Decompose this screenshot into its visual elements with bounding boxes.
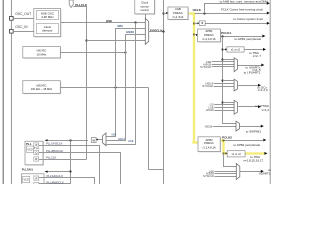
svg-text:SYSCLK: SYSCLK (200, 65, 211, 69)
node PCLK2 branch (222, 139, 224, 141)
wire HSI16 stub (212, 64, 234, 66)
mux LPTIM (234, 100, 237, 114)
svg-text:HSI16: HSI16 (118, 137, 126, 141)
clock source control box (136, 0, 156, 15)
VCO box PLLSAI1 (23, 176, 30, 182)
node HCLK to /8 (193, 22, 195, 24)
arrowhead APB1 peripherals (262, 35, 265, 38)
wire HSI16 stub USART1 (215, 173, 237, 175)
arrowhead FCLK (267, 12, 270, 15)
AHB PRESC box (168, 7, 188, 19)
arrowhead into /M (96, 138, 98, 140)
PLLSAI1 box (22, 174, 45, 188)
svg-text:to SWPMI1: to SWPMI1 (246, 129, 262, 133)
node HSE branch (134, 21, 136, 23)
wire LSE stub (212, 61, 234, 63)
arrowhead into PLLSAI1 (45, 171, 48, 173)
svg-text:USART1: USART1 (259, 172, 271, 176)
yellow highlight: x1orx2 out to TIMx arrow (245, 152, 265, 154)
svg-text:/1,2,4,8,16: /1,2,4,8,16 (202, 145, 216, 149)
svg-text:to Cortex system timer: to Cortex system timer (233, 17, 263, 21)
wire stub to /8 (194, 23, 198, 25)
svg-text:HCLK: HCLK (193, 8, 202, 12)
wire stub to USART mux (223, 59, 234, 61)
yellow highlight: vertical HCLK to APB2 (193, 12, 195, 142)
svg-text:PCLK1: PCLK1 (221, 31, 231, 35)
MSI RC box (23, 81, 61, 94)
divider /8 box (199, 21, 205, 26)
wire HSE to sysclk mux (61, 22, 146, 24)
wire HSE riser down to PLL mux (107, 23, 136, 145)
node HSI16 riser (124, 51, 126, 53)
mux USARTx (234, 58, 237, 72)
arrowhead into x1orx2 APB2 (226, 152, 228, 154)
svg-text:PLL48M2CLK: PLL48M2CLK (47, 181, 65, 185)
node PLLSAI1 input branch (69, 170, 71, 172)
svg-text:PLLSAI3CLK: PLLSAI3CLK (46, 142, 63, 146)
wire HSI16 stub I2C (214, 83, 234, 85)
wire SYSCLK stub USART1 (215, 176, 237, 178)
arrowhead SWPMI (261, 125, 264, 128)
wire OSC_OUT to HSE OSC (13, 18, 34, 20)
arrowhead USART1 (261, 170, 264, 173)
wire MSI riser up to mux (116, 29, 146, 88)
yellow highlight: vertical PCLK2 down to x1orx2 (222, 140, 224, 155)
mux PLL source (reversed) (103, 133, 106, 146)
svg-text:HSI16: HSI16 (206, 108, 214, 112)
wire riser to AHB bus arrow (205, 4, 268, 14)
wire LSE stub USART1 (215, 171, 237, 173)
divider /P PLLSAI1 (34, 176, 39, 180)
svg-text:SYSCLK: SYSCLK (203, 174, 214, 178)
svg-text:HSI16: HSI16 (126, 30, 134, 34)
yellow highlight: HCLK wire segment (188, 12, 195, 14)
wire PCLK1 vertical (223, 37, 237, 124)
wire MSI riser down to PLL mux (107, 88, 116, 137)
wire HSI16 stub SWPMI (213, 126, 236, 128)
node PCLK1 to I2C mux (221, 79, 223, 81)
svg-text:control: control (140, 8, 149, 12)
svg-text:x1 or x2: x1 or x2 (232, 152, 242, 156)
wire PLL mux out to /M (96, 139, 103, 141)
node SYSCLK to AHB presc (162, 12, 164, 14)
node PCLK1 to LPTIM mux (221, 101, 223, 103)
wire I2C out (237, 85, 258, 87)
yellow highlight: PCLK2 out of APB2 PRESC (220, 139, 224, 141)
wire PLL48M1CLK (39, 153, 121, 185)
svg-text:PLL48M1CLK: PLL48M1CLK (46, 149, 64, 153)
svg-text:to APB1 peripherals: to APB1 peripherals (234, 37, 261, 41)
yellow highlight: elbow into APB2 PRESC (192, 141, 198, 143)
svg-text:MSI: MSI (118, 24, 123, 28)
wire stub to APB1 (194, 34, 196, 36)
wire LPTIM out (237, 106, 258, 108)
svg-text:/P: /P (35, 177, 38, 180)
svg-text:x=1,8,15,16,17: x=1,8,15,16,17 (243, 158, 263, 162)
wire SYSCLK out (149, 31, 164, 33)
svg-text:/M: /M (92, 138, 95, 142)
wire SYSCLK vertical distribution (163, 0, 165, 184)
svg-text:PLLSAI1: PLLSAI1 (22, 168, 34, 172)
arrowhead TIMx APB2 (264, 152, 267, 155)
HSE OSC outer box shadow (35, 9, 62, 37)
node PCLK1 branch (221, 35, 223, 37)
svg-text:HSE: HSE (128, 139, 134, 143)
wire HSI16 riser up to mux (126, 35, 146, 53)
svg-text:PLLCLK: PLLCLK (46, 156, 57, 160)
wire LSE stub LPTIM (214, 107, 234, 109)
node HCLK to APB1 (193, 33, 195, 35)
pin OSC_OUT square (10, 17, 14, 21)
wire PLLCLK into sysclk mux (87, 40, 146, 42)
svg-text:MSI: MSI (112, 133, 117, 137)
PLL box (25, 141, 43, 165)
divider /Q PLL (34, 150, 39, 154)
svg-text:F vco: F vco (34, 148, 40, 150)
arrowhead into APB1 PRESC (196, 34, 198, 36)
arrowhead into PLL (45, 139, 48, 141)
svg-text:x=1,2,3: x=1,2,3 (258, 88, 268, 92)
svg-text:to LPUART1: to LPUART1 (244, 71, 261, 75)
svg-text:x=1,2: x=1,2 (262, 108, 270, 112)
svg-text:to AHB bus, core, memory and D: to AHB bus, core, memory and DMA (220, 0, 268, 4)
node HCLK branch up (203, 12, 205, 14)
node PCLK2 to x1orx2 (222, 152, 224, 154)
svg-text:16 MHz: 16 MHz (37, 52, 48, 56)
wire PLLSAI1CLK (39, 178, 95, 185)
svg-text:/1,2..512: /1,2..512 (172, 15, 183, 19)
wire USART1 out (240, 171, 262, 173)
svg-text:PCLK2: PCLK2 (222, 136, 232, 140)
wire HSI16 stub LPTIM (214, 110, 234, 112)
mux SYSCLK (145, 18, 148, 44)
wire stub to x1orx2 (223, 49, 226, 51)
wire PCLK2 to APB2 peripherals (224, 140, 263, 142)
wire USARTx out (237, 65, 262, 67)
wire MSI out (60, 87, 148, 89)
svg-text:MSI RC: MSI RC (36, 83, 46, 87)
wire PLLCLK from /R (39, 159, 87, 161)
PLL box shadow (26, 142, 44, 166)
wire PLL48M2CLK (cut) (39, 183, 71, 185)
MSI RC box shadow (24, 82, 62, 95)
HSE OSC inner box (36, 11, 58, 20)
divider /Q PLLSAI1 (cut) (34, 183, 39, 187)
wire PCLK1 (220, 36, 263, 38)
wire MSI descender right (149, 88, 164, 170)
svg-text:/1,2,4,8,16: /1,2,4,8,16 (202, 37, 216, 41)
svg-text:HSE: HSE (106, 19, 112, 23)
arrowhead USARTx (261, 64, 264, 67)
wire HCLK / FCLK line (195, 13, 268, 15)
HSE OSC outer box (34, 9, 61, 37)
wire LSI stub (214, 104, 234, 106)
svg-text:x=2..7: x=2..7 (253, 54, 262, 58)
svg-text:100 kHz ~ 48 MHz: 100 kHz ~ 48 MHz (31, 87, 53, 91)
clock detector inner box (36, 24, 58, 34)
svg-text:SYSCLK: SYSCLK (202, 84, 213, 88)
svg-text:FCLK Cortex free-running clock: FCLK Cortex free-running clock (221, 7, 264, 11)
divider /P PLL (34, 143, 39, 147)
svg-text:HSI16: HSI16 (205, 125, 213, 129)
wire SWPMI out (239, 126, 261, 128)
arrowhead to AHB bus (267, 2, 270, 5)
AHB PRESC box shadow (169, 8, 189, 20)
svg-text:/P: /P (35, 144, 38, 147)
mux SWPMI (236, 121, 239, 131)
svg-text:detector: detector (42, 29, 52, 33)
svg-text:PLLSAI1CLK: PLLSAI1CLK (47, 174, 64, 178)
divider /R PLL (34, 157, 39, 161)
HSI RC box (23, 47, 61, 58)
HSI RC box shadow (24, 47, 62, 58)
wire stub into AHB PRESC (163, 13, 166, 15)
node PLLCLK to mux (85, 39, 87, 41)
APB1 PRESC box (198, 29, 221, 42)
wire OSC_IN to HSE OSC (13, 31, 34, 33)
wire SYSCLK stub (212, 66, 234, 68)
yellow highlight: stub into x1orx2 box2 (223, 152, 227, 154)
arrowhead LPTIM (258, 105, 261, 108)
wire HSI16 out (60, 52, 125, 54)
pin OSC_IN square (10, 29, 14, 33)
wire /M out to PLL (47, 140, 88, 142)
node PCLK1 to USART mux (221, 58, 223, 60)
wire PLLCLK riser (74, 7, 87, 160)
multiplier x1 or x2 box (APB2 timers) (227, 151, 245, 157)
arrowhead into /8 (198, 22, 200, 24)
svg-text:PLL: PLL (26, 142, 32, 146)
VCO box PLL (26, 146, 33, 152)
node MSI riser (114, 86, 116, 88)
svg-text:x1 or x2: x1 or x2 (231, 48, 241, 52)
wire stub to LPTIM mux (223, 102, 234, 104)
wire control to mux (145, 14, 147, 19)
connector PLLCLK pentagon (69, 0, 73, 7)
node SYSCLK joins (162, 30, 164, 32)
multiplier x1 or x2 box (APB1 timers) (227, 47, 244, 52)
mux USART1 (236, 164, 240, 180)
node PCLK1 to x1orx2 (221, 48, 223, 50)
svg-text:VCO: VCO (24, 179, 29, 182)
wire PCLK2 down to USART1 mux (224, 154, 237, 167)
svg-text:VCO: VCO (27, 148, 32, 151)
APB2 PRESC box (198, 137, 220, 152)
arrowhead cortex timer (267, 22, 270, 25)
arrowhead into x1orx2 (225, 48, 227, 50)
wire HSI16 riser down to PLL mux (107, 53, 126, 141)
mux I2C (234, 79, 237, 91)
wire PLLSAI1 input (47, 171, 70, 173)
APB1 PRESC box shadow (198, 30, 221, 43)
divider /M box (91, 137, 96, 142)
wire PLL source vertical A (70, 140, 72, 184)
frame border left (2, 0, 4, 184)
wire PLLSAI3CLK (39, 146, 100, 185)
APB2 PRESC box shadow (199, 138, 221, 153)
svg-text:/Q: /Q (35, 152, 38, 155)
arrowhead APB2 peripherals (263, 139, 266, 142)
wire /8 to cortex timer (205, 23, 267, 25)
chip boundary right (269, 0, 271, 184)
svg-text:OSC_OUT: OSC_OUT (15, 12, 31, 16)
arrowhead I2C (258, 84, 261, 87)
svg-text:4-48 MHz: 4-48 MHz (41, 15, 54, 19)
wire to TIMx APB1 (244, 49, 263, 51)
svg-text:to APB2 peripherals: to APB2 peripherals (233, 143, 260, 147)
wire SYSCLK stub I2C (214, 86, 234, 88)
svg-text:/R: /R (35, 158, 38, 161)
wire stub to I2C mux (223, 80, 234, 82)
arrowhead TIMx APB1 (263, 48, 266, 51)
arrowhead into AHB PRESC (166, 12, 168, 14)
svg-text:OSC_IN: OSC_IN (15, 25, 28, 29)
chip boundary left (10, 0, 12, 184)
node PLL input branch (69, 139, 71, 141)
